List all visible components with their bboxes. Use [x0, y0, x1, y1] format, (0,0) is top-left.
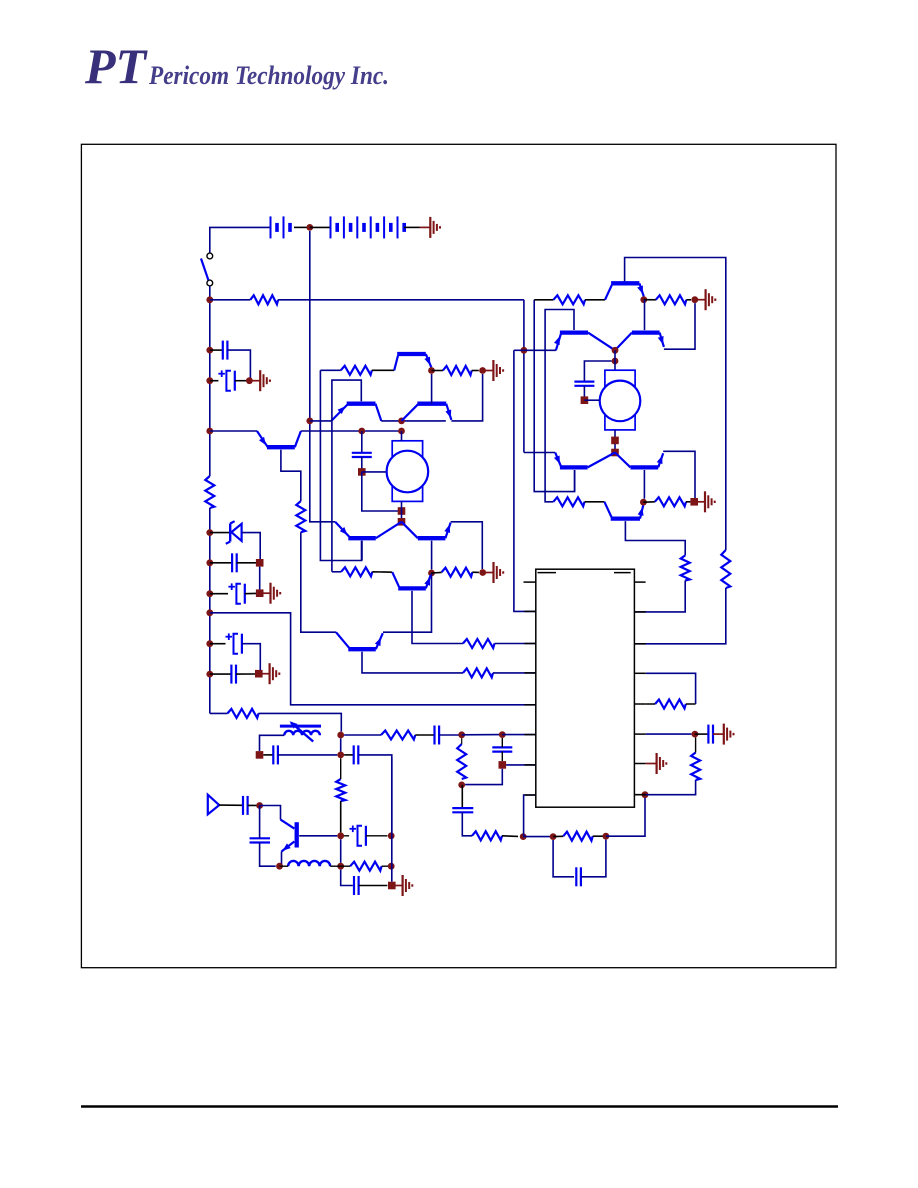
wire row765 to IC pin7 [506, 764, 536, 766]
transistor Q10 bridge2 top-left PNP [556, 334, 561, 350]
wire IC pin8 right row [634, 794, 645, 796]
capacitor C9 row735 [433, 726, 435, 745]
wire L2 left stub [280, 865, 289, 867]
wire capA1 left stub [210, 349, 223, 351]
transistor Q2 top PNP [394, 356, 398, 371]
node osc emitter junction [276, 863, 283, 870]
wire varicoil junction down [340, 738, 342, 751]
transistor Q7 mid PNP [392, 572, 399, 587]
resistor R21 vertical x685 [681, 555, 690, 580]
transistor Q14 inverted NPN [604, 502, 611, 517]
resistor R8 row836 [563, 832, 592, 841]
wire row735 node to node2 [462, 734, 503, 736]
wire R10 right stub [382, 865, 392, 867]
transistor Q12 bridge2 bottom-left NPN [555, 453, 561, 467]
wire row735 cap to node [439, 734, 462, 736]
node rail y674 [206, 671, 213, 678]
wire x320 base column [320, 370, 361, 560]
ground G9 [694, 501, 705, 503]
wire R20 right to Q14 [585, 501, 605, 503]
ground G6 [483, 370, 494, 372]
wire speaker-L down corner [362, 472, 398, 511]
wire R6 top stub [461, 738, 463, 744]
wire battery B1 to junction [294, 226, 310, 228]
wire R22 left stub [643, 501, 654, 503]
capacitor C18 speaker-L [352, 452, 372, 454]
wire Q8 base down [362, 652, 463, 673]
wire cap down corner to emitter node [260, 843, 276, 867]
wire capA1 right to down [227, 350, 250, 381]
wire R19 left stub [644, 299, 656, 301]
wire row431 right [301, 430, 402, 432]
transistor Q5 bridge bottom-left PNP [335, 522, 349, 537]
node rail y643 [206, 640, 213, 647]
capacitor C6 [230, 665, 232, 684]
wire R12 left stub [432, 370, 443, 372]
wire R8 to node [593, 835, 606, 837]
transistor Q4 bridge top-right NPN [402, 404, 419, 421]
wire row572 left stub [332, 571, 341, 573]
node speaker-R bottom1 [611, 437, 619, 445]
resistor R22 row502 right [655, 497, 686, 506]
wire Q1 base down [281, 450, 301, 501]
wire x726 lower [634, 588, 725, 644]
node capB ground junction [256, 589, 264, 597]
capacitor C17 row885 [353, 876, 355, 895]
wire column x391 [391, 758, 393, 881]
ground G8 [695, 299, 706, 301]
wire capD1 left stub [263, 754, 273, 756]
wire row421 right corner [451, 374, 482, 421]
wire Q13 collector down [643, 470, 645, 499]
wire row713 right to down [259, 713, 342, 731]
node row754 mid junction [337, 752, 344, 759]
svg-text:PT: PT [84, 38, 149, 94]
capacitor C10 column x462 [452, 807, 473, 809]
capacitor C4 polarized [236, 584, 241, 604]
node capB mid junction [256, 559, 264, 567]
battery B1 [270, 216, 272, 238]
wire row300 long to right [278, 299, 524, 301]
microphone MK1 circle [387, 451, 429, 493]
ground G3 [260, 592, 271, 594]
node rail y532 [206, 529, 213, 536]
node row370 Q2 emitter [428, 367, 435, 374]
transistor Q13 bridge2 bottom-right PNP [615, 453, 631, 468]
node row866 right [388, 863, 395, 870]
capacitor C14 antenna [242, 796, 244, 815]
capacitor C15 osc left column [250, 837, 270, 839]
ground G11 pin7r [646, 763, 657, 765]
node inv NPN emitter [640, 499, 647, 506]
wire row735 junction to resistor [344, 734, 381, 736]
node x431 y573 [428, 570, 435, 577]
node row735 x462 [458, 731, 465, 738]
node varicoil right junction [337, 732, 344, 739]
resistor R10 row866 [350, 862, 381, 871]
wire C10 down to resistor row [462, 812, 472, 836]
wire row300 left [210, 299, 251, 301]
resistor R3 vertical [296, 501, 305, 532]
wire IC pin3r loop [646, 673, 696, 704]
wire x502 to x462 node [465, 769, 502, 785]
resistor R17 vertical x726 [721, 550, 730, 588]
IC U1 body [536, 569, 635, 807]
wire x431 down corner row632 [383, 573, 432, 632]
wire junction to battery B2 [310, 226, 331, 228]
wire C13 right up [581, 840, 606, 877]
node x695 bottom terminal [690, 498, 698, 506]
node speaker-R top2 [612, 358, 619, 365]
wire C11 top stub [501, 738, 503, 747]
node row836 x606 [603, 833, 610, 840]
svg-text:Pericom Technology Inc.: Pericom Technology Inc. [148, 61, 389, 90]
wire capB2 left stub [210, 593, 228, 595]
wire capC2 right stub [236, 673, 255, 675]
diode D1 zener [229, 524, 231, 542]
wire row735 to cap [415, 734, 434, 736]
wire C17 right stub [359, 885, 388, 887]
resistor R2 left rail vertical [205, 476, 214, 508]
wire node to Q15 collector [260, 806, 281, 820]
wire R7 to node [502, 835, 518, 838]
wire row431 left [210, 430, 257, 432]
capacitor C7 [272, 745, 274, 764]
IC U1 pin stubs right [634, 581, 645, 583]
node speaker-L cap bottom [358, 468, 366, 476]
wire x645 to x696 resistor column [645, 780, 696, 795]
capacitor C1 [222, 341, 224, 360]
wire speaker-R column bottom [614, 430, 616, 453]
wire C16 left stub [344, 835, 349, 837]
wire Q15 base to node [299, 835, 337, 837]
resistor R16 row673 [463, 668, 493, 677]
transistor Q1 [257, 431, 268, 447]
battery B2 bank [330, 216, 332, 238]
page border frame [81, 144, 836, 967]
wire Q15 emitter down [281, 852, 283, 867]
node speaker-L box top [398, 428, 405, 435]
node rail y612 [206, 609, 213, 616]
wire Q6 collector down [431, 541, 433, 570]
resistor R5 row735 [381, 731, 415, 740]
ground G2 [249, 380, 260, 382]
wire R11 to Q2 [372, 369, 394, 371]
node x482 y572 [479, 569, 486, 576]
node x462 y785 [458, 782, 465, 789]
wire R3 down to row632 [301, 532, 336, 632]
wire x545 column [545, 310, 574, 502]
resistor R20 row502 [553, 497, 584, 506]
node speaker-R top1 [612, 347, 619, 354]
node x524 y350 [521, 347, 528, 354]
node rail y350 [206, 347, 213, 354]
wire row885 corner [341, 870, 353, 886]
wire x310 battery rail [310, 231, 335, 522]
node rail y431 [206, 428, 213, 435]
wire R12 right stub [472, 370, 479, 372]
wire x534 column [534, 300, 574, 492]
wire capC1 left stub [210, 643, 226, 645]
wire C16 right stub [366, 835, 388, 837]
wire capC1 right to down [242, 644, 260, 670]
wire Q7 base down to IC [412, 591, 463, 644]
wire row612 to IC pin5 [210, 613, 536, 705]
resistor R14 row572 right [442, 568, 473, 577]
transistor Q3 bridge top-left PNP [331, 405, 347, 421]
wire Q13 emitter to x695 down [663, 451, 695, 498]
wire Q9 emitter down to bridge [644, 300, 646, 330]
IC U1 top interior marks [538, 572, 557, 574]
wire left rail upper [209, 286, 211, 476]
wire x514 column to IC pin2 [514, 349, 524, 351]
node osc input [256, 802, 263, 809]
resistor R13 row572 [341, 567, 372, 576]
capacitor C19 speaker-R [574, 381, 594, 383]
node rail y593 [206, 590, 213, 597]
inductor L1 variable [280, 725, 321, 728]
wire C11 bottom stub [501, 752, 503, 762]
wire row735 to IC pin6 [502, 734, 536, 736]
wire Q3 base loop [332, 380, 361, 572]
transistor Q8 bottom NPN [336, 632, 349, 648]
node battery junction [306, 224, 313, 231]
wire L2 right stub [330, 865, 341, 867]
capacitor C13 row877 [575, 867, 577, 886]
wire capD2 right to down [358, 755, 392, 833]
wire C19 down [583, 386, 585, 397]
wire battery B2 to ground [404, 226, 420, 228]
wire row421 left [310, 420, 332, 422]
microphone MK2 circle [600, 381, 641, 422]
wire capA2 left stub [210, 380, 219, 382]
node row835 right [388, 832, 395, 839]
wire speaker-R column top [614, 350, 616, 370]
ground G5 [392, 885, 403, 887]
wire top NPN collector loop [625, 258, 726, 551]
wire R18 left stub [534, 299, 553, 301]
IC U1 pin stubs left [524, 581, 536, 583]
wire Q4 collector up [431, 374, 433, 404]
capacitor C3 [231, 553, 233, 572]
wire Q5 base down [361, 541, 363, 561]
transistor Q9 top NPN [605, 285, 612, 300]
wire x341 node to node [340, 839, 342, 863]
wire speaker-L cap column upper [361, 431, 363, 453]
node row300 ground junction [691, 296, 698, 303]
node row836 x553 [550, 833, 557, 840]
wire capB2 right stub [245, 592, 256, 594]
wire left rail lower [209, 508, 211, 713]
capacitor C5 polarized [234, 634, 239, 654]
wire R23 right stub [686, 703, 696, 705]
wire row713 [210, 712, 228, 714]
resistor R19 row300 right [656, 295, 687, 304]
node row370 ground junction [479, 367, 486, 374]
node x502 y765 terminal [499, 761, 507, 769]
resistor R11 row370 [341, 366, 372, 375]
node C19 bottom [581, 396, 589, 404]
resistor R4 row713 [228, 709, 259, 718]
wire IC pin6r to node [646, 733, 692, 735]
transistor Q15 oscillator [281, 820, 295, 829]
ground G10 [713, 733, 724, 735]
capacitor C8 [353, 745, 355, 764]
node row835 mid [337, 832, 344, 839]
wire R21 down to IC pin2r [634, 581, 685, 612]
wire box bottom stub [401, 501, 403, 521]
row370 wires [320, 369, 340, 371]
wire speaker-L cap column lower [361, 457, 363, 469]
wire R9 top stub [695, 738, 697, 753]
wire capB junction down [259, 567, 261, 590]
node row735 x502 [499, 731, 506, 738]
node capC ground junction [255, 670, 263, 678]
wire x341 resistor to node [340, 801, 342, 832]
ground G4 [259, 673, 270, 675]
transistor Q11 bridge2 top-right NPN [615, 333, 632, 351]
node rail y300 [206, 296, 213, 303]
wire x462 node to cap [461, 785, 463, 808]
wire x524 column [523, 300, 525, 453]
wire row643 to IC pin3 [495, 643, 536, 645]
wire capA2 right stub [235, 380, 250, 382]
footer rule [81, 1105, 838, 1107]
node x645 y795 [642, 791, 649, 798]
wire R22 right stub [686, 501, 690, 503]
capacitor C11 column x502 [492, 746, 512, 748]
wire capD1 right [278, 754, 337, 756]
node Q9 emitter [640, 296, 647, 303]
node capA ground junction [246, 377, 253, 384]
node speaker-L bottom1 [398, 507, 406, 515]
wire cap to node [248, 804, 260, 806]
wire capB1 right stub [237, 562, 256, 564]
wire node to cap C20 [695, 733, 709, 735]
wire IC pin8 corner [524, 795, 536, 837]
wire to mic circle [362, 471, 387, 473]
node x695 y734 [692, 731, 699, 738]
node rail y562 [206, 559, 213, 566]
capacitor C20 [707, 725, 709, 744]
wire Q11 emitter to x695 [664, 303, 695, 349]
wire speaker-R cap corner [584, 361, 611, 382]
wire bottom cap loop left [553, 840, 574, 877]
wire R18 right to Q9 [585, 299, 605, 301]
resistor R1 row300 [250, 295, 278, 304]
wire osc node down to cap [259, 806, 261, 839]
wire row836 node to resistor [553, 835, 563, 837]
node row421 centre [398, 418, 405, 425]
capacitor C2 polarized [226, 371, 231, 391]
ground G7 [483, 572, 494, 574]
wire Q6 emitter row right [451, 522, 483, 569]
wire R13 to Q7 [372, 571, 392, 573]
inductor L2 [288, 861, 330, 866]
microphone MK1 box [392, 441, 422, 502]
node speaker-R bottom2 [611, 449, 619, 457]
wire R14 right stub [472, 571, 479, 573]
wire row350 left [524, 349, 556, 351]
wire Q12 base down [574, 470, 576, 492]
wire capC2 left stub [210, 673, 232, 675]
wire zener left stub [210, 532, 229, 534]
wire Q14 emitter path [625, 521, 685, 555]
wire antenna to cap [219, 804, 243, 806]
microphone MK2 box [605, 370, 635, 430]
wire R23 left stub [646, 703, 655, 705]
wire R10 left stub [341, 865, 351, 867]
wire C19 node to circle [584, 399, 599, 401]
wire battery row left [210, 227, 270, 252]
node row866 mid [337, 863, 344, 870]
wire zener right to down [242, 533, 261, 559]
transistor Q6 bridge bottom-right NPN [402, 522, 418, 538]
switch S1 [207, 253, 213, 259]
wire varicoil left to down [260, 735, 285, 751]
node x310 y421 [306, 418, 313, 425]
wire x341 cap stub upper [340, 758, 342, 779]
resistor R6 vertical x462 [457, 744, 466, 779]
node rail y380 [206, 377, 213, 384]
node speaker-L cap top [358, 428, 365, 435]
resistor R23 row704 [655, 700, 686, 709]
wire row452 left [524, 452, 555, 454]
node speaker-L bottom2 [398, 518, 406, 526]
resistor R12 row370 right [443, 366, 472, 375]
node row836 x522 [520, 833, 527, 840]
resistor R18 row300 [553, 295, 585, 304]
resistor R15 row643 [463, 639, 495, 648]
wire column x341 resistor [336, 779, 345, 801]
wire capB1 left stub [210, 562, 232, 564]
resistor R9 vertical x696 [691, 753, 700, 781]
antenna AN1 [208, 795, 219, 815]
node row885 terminal [388, 882, 396, 890]
wire row673 to IC pin4 [493, 672, 536, 674]
wire row421 mid [381, 420, 446, 422]
wire R19 right stub [686, 299, 691, 301]
resistor R7 row836 [472, 831, 502, 840]
wire box top stub [401, 431, 403, 441]
wire row836 to x645 up [606, 795, 645, 837]
capacitor C16 polarized osc [358, 826, 363, 846]
node row754 left terminal [256, 751, 264, 759]
ground G1 battery [420, 226, 431, 228]
wire capD2 left stub [344, 754, 354, 756]
wire row836 node to node [523, 836, 553, 838]
wire R14 left stub [432, 571, 442, 574]
